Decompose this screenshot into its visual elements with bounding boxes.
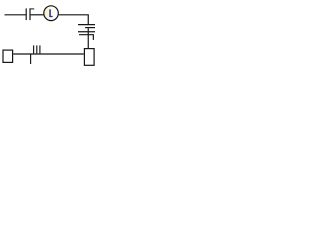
cell long electrode below wire (30, 54, 32, 65)
cell tick 3 (39, 45, 41, 53)
wire battery to right box (87, 28, 89, 48)
cell tick 2 (36, 45, 38, 53)
lamp L circle (44, 6, 59, 21)
left box terminal (3, 50, 13, 62)
bottom wire (13, 53, 84, 55)
capacitor C1 top tick (30, 8, 34, 10)
right box component (84, 49, 94, 66)
capacitor C1 right plate (29, 8, 31, 20)
wire C1 to lamp (31, 14, 44, 16)
battery GB plate 4 (79, 35, 93, 40)
letter L inside lamp (49, 9, 52, 17)
capacitor C1 left plate (25, 8, 27, 20)
battery GB plate 1 long (78, 24, 95, 26)
battery GB plate 3 long (78, 31, 95, 33)
wire top-left lead (5, 14, 26, 16)
circuit schematic: series loop with capacitor, lamp L, battery, cell bank, terminals (0, 0, 98, 68)
cell tick 1 (33, 45, 35, 53)
battery GB plate 2 short (85, 27, 95, 29)
wire lamp to top-right corner (59, 15, 89, 24)
